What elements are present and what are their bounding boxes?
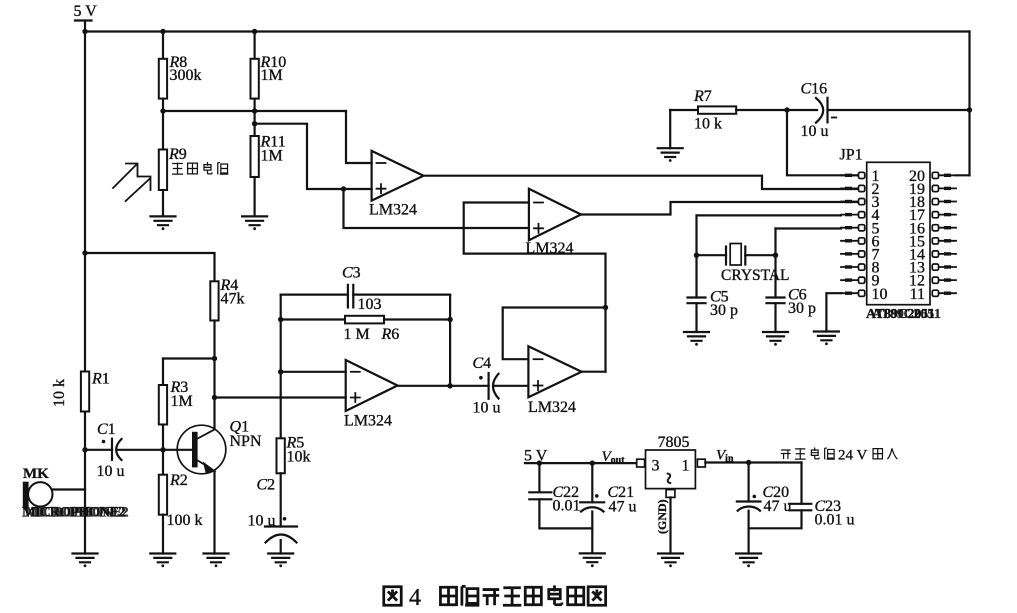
JP1 pin 2	[841, 187, 859, 189]
JP1 pin 19	[939, 187, 957, 189]
wire top power rail	[85, 30, 970, 32]
svg-text:LM324: LM324	[369, 202, 417, 219]
ground C20	[736, 554, 761, 568]
wire Q1 emitter to ground	[213, 472, 215, 554]
capacitor C1	[85, 449, 112, 451]
wire node A horizontal	[163, 110, 346, 112]
power 5V stub	[75, 21, 92, 32]
wire crystal to JP1 pin 5	[776, 227, 842, 229]
ground R7	[658, 148, 683, 162]
node C20 tap	[746, 460, 751, 465]
ground JP1 pin 10	[814, 332, 839, 346]
svg-text:MK: MK	[23, 466, 49, 482]
svg-text:100 k: 100 k	[167, 512, 203, 529]
svg-text:10: 10	[872, 286, 888, 303]
svg-text:C3: C3	[342, 265, 361, 282]
svg-text:1M: 1M	[261, 67, 283, 84]
svg-text:C4: C4	[473, 355, 492, 372]
JP1 pin 10	[841, 292, 859, 294]
wire C16 node to JP1 pin 1	[787, 110, 859, 175]
svg-text:5 V: 5 V	[524, 448, 548, 465]
svg-text:5 V: 5 V	[74, 3, 98, 20]
wire R3 top	[162, 359, 164, 386]
wire U2 output to JP1 pin 3	[581, 202, 859, 215]
wire U1 output to JP1 pin 2	[424, 176, 859, 189]
JP1 pin 9	[841, 279, 859, 281]
node C21 tap	[590, 460, 595, 465]
resistor R7	[670, 109, 698, 111]
capacitor C23	[800, 463, 802, 504]
wire crystal right vertical	[774, 229, 776, 298]
wire U4 feedback to inverting input	[503, 308, 606, 360]
ground left rail	[73, 554, 98, 568]
capacitor C5	[688, 298, 706, 304]
svg-text:3: 3	[652, 458, 660, 475]
wire pin 20 to right rail	[956, 174, 970, 176]
wire 5V to 7805 pin 3	[525, 462, 637, 464]
ground R9	[151, 216, 176, 230]
resistor R6	[281, 318, 345, 320]
node R6 left junction	[278, 317, 283, 322]
node power rail left corner	[82, 29, 87, 34]
svg-text:103: 103	[358, 296, 382, 313]
wire JP1 pin 10 to ground	[826, 293, 841, 331]
wire R3 top to collector node	[163, 357, 215, 359]
svg-text:24 V: 24 V	[838, 448, 867, 464]
JP1 pin 6	[841, 240, 859, 242]
svg-text:R7: R7	[693, 88, 712, 105]
svg-text:4: 4	[409, 585, 421, 611]
ground C21/C22	[580, 553, 605, 567]
wire R7 to C16	[736, 109, 817, 111]
wire R2 to ground	[162, 515, 164, 554]
op-amp U4 LM324	[528, 346, 581, 397]
node crystal left junction	[694, 253, 699, 258]
wire right rail down to pin 20	[968, 32, 970, 176]
JP1 pin 5	[841, 227, 859, 229]
svg-text:1 M: 1 M	[344, 326, 370, 343]
wire microphone to rail	[52, 488, 85, 490]
wire left rail down	[84, 32, 86, 554]
JP1 pin 12	[939, 279, 957, 281]
svg-text:AT89C2051: AT89C2051	[872, 307, 941, 322]
svg-text:C2: C2	[257, 477, 276, 494]
svg-text:C1: C1	[97, 421, 116, 438]
resistor R8	[159, 59, 167, 99]
wire collector to U3 non-inverting input	[215, 396, 346, 398]
svg-text:C16: C16	[801, 81, 828, 98]
svg-text:R6: R6	[381, 326, 400, 343]
JP1 pin 17	[939, 214, 957, 216]
svg-text:10k: 10k	[287, 449, 311, 466]
node C16 wire to right rail	[967, 107, 972, 112]
svg-text:(GND): (GND)	[655, 499, 669, 534]
resistor R3	[159, 385, 167, 425]
svg-text:10 u: 10 u	[248, 513, 276, 530]
op-amp U2 LM324	[529, 189, 581, 240]
wire R9 to ground	[162, 190, 164, 216]
svg-text:R1: R1	[91, 371, 110, 388]
node U1+ branch junction	[341, 186, 346, 191]
svg-text:MICROPHONE2: MICROPHONE2	[25, 505, 128, 521]
resistor R1	[81, 372, 89, 412]
svg-text:10 k: 10 k	[51, 379, 68, 407]
node B junction	[252, 121, 257, 126]
JP1 pin 13	[939, 266, 957, 268]
node A junction at R8/R9	[160, 108, 165, 113]
resistor R10	[251, 59, 259, 99]
wire U1+ to U2+ link	[344, 189, 529, 228]
node rail-R10 junction	[252, 29, 257, 34]
wire 7805 pin 1 to 24V input	[705, 461, 801, 463]
wire 7805 GND pin to ground	[669, 497, 671, 553]
svg-text:1M: 1M	[171, 393, 193, 410]
svg-text:11: 11	[910, 286, 925, 303]
JP1 pin 20	[939, 174, 957, 176]
wire feedback right vertical	[449, 295, 451, 386]
node R6 right junction	[447, 317, 452, 322]
label switch power 24V input	[781, 450, 791, 459]
wire R8 top	[162, 32, 164, 59]
node U3 inverting junction	[278, 369, 283, 374]
resistor R4	[210, 281, 218, 320]
svg-text:30 p: 30 p	[710, 302, 738, 319]
JP1 pin 15	[939, 240, 957, 242]
ground Q1 emitter	[204, 554, 229, 568]
capacitor C16	[816, 98, 823, 123]
node left rail to R4	[82, 250, 87, 255]
JP1 pin 4	[841, 214, 859, 216]
wire U2 inverting input net	[464, 203, 606, 372]
wire U3 inverting net vertical	[280, 295, 282, 439]
svg-text:R9: R9	[168, 146, 187, 163]
ground C2	[268, 554, 293, 568]
svg-text:NPN: NPN	[230, 433, 262, 450]
node R4/R3 junction	[212, 356, 217, 361]
JP1 pin 7	[841, 253, 859, 255]
node U3 output junction	[447, 383, 452, 388]
node R1/C1 junction	[82, 447, 87, 452]
crystal CRYSTAL	[697, 254, 727, 256]
svg-text:47k: 47k	[221, 291, 245, 308]
transistor Q1	[177, 425, 226, 474]
wire crystal left vertical	[695, 215, 697, 297]
wire R10 bottom to R11	[254, 99, 256, 136]
wire to U3 inverting input	[281, 371, 346, 373]
svg-text:LM324: LM324	[344, 413, 392, 430]
capacitor C3	[281, 294, 348, 296]
svg-text:7805: 7805	[658, 434, 690, 451]
svg-text:30 p: 30 p	[788, 300, 816, 317]
label guang-min-dian-zu (photoresistor)	[172, 163, 183, 175]
resistor R5	[277, 438, 285, 473]
wire R8 bottom	[162, 99, 164, 111]
resistor R2	[159, 475, 167, 515]
svg-text:300k: 300k	[170, 67, 202, 84]
JP1 pin 11	[939, 292, 957, 294]
op-amp U1 LM324	[372, 151, 424, 201]
node C16/pin1 junction	[784, 107, 789, 112]
wire node A to U1 inverting input	[346, 111, 372, 163]
svg-text:10 u: 10 u	[97, 463, 125, 480]
wire R11 to ground	[254, 177, 256, 216]
capacitor C6	[767, 298, 785, 304]
svg-text:1M: 1M	[261, 148, 283, 165]
svg-text:47 u: 47 u	[609, 499, 637, 516]
JP1 pin 8	[841, 266, 859, 268]
node rail-R8 junction	[160, 29, 165, 34]
wire R10 top	[254, 32, 256, 59]
JP1 pin 16	[939, 227, 957, 229]
resistor R11	[251, 136, 259, 177]
capacitor C22	[538, 463, 540, 492]
svg-text:0.01 u: 0.01 u	[815, 512, 855, 529]
wire U4 output	[582, 371, 606, 373]
wire R4 to Q1 collector	[213, 321, 215, 429]
wire U3 output to C4	[398, 385, 489, 387]
capacitor C20	[747, 463, 749, 502]
capacitor C21	[591, 463, 593, 502]
svg-text:1: 1	[682, 458, 690, 475]
resistor R9 (photoresistor)	[162, 111, 164, 150]
node A junction at R10	[252, 108, 257, 113]
svg-text:10 u: 10 u	[473, 400, 501, 417]
ground R2	[150, 554, 175, 568]
svg-text:47 u: 47 u	[764, 498, 792, 515]
ground C5	[684, 332, 709, 346]
node collector to U3+ junction	[212, 395, 217, 400]
svg-text:0.01: 0.01	[553, 498, 581, 515]
svg-text:R2: R2	[169, 472, 188, 489]
caption: figure 4 smart controller circuit diagram	[384, 587, 401, 605]
node U4 feedback corner	[603, 305, 608, 310]
ground R11	[242, 216, 267, 230]
JP1 pin 1	[841, 174, 859, 176]
node base divider junction	[160, 447, 165, 452]
JP1 pin 18	[939, 201, 957, 203]
JP1 pin 14	[939, 253, 957, 255]
wire R5 to C2	[280, 473, 282, 526]
photoresistor light arrows	[113, 164, 151, 202]
svg-text:~: ~	[656, 472, 681, 484]
svg-text:CRYSTAL: CRYSTAL	[721, 267, 790, 284]
wire rail to R4	[85, 253, 215, 281]
wire crystal to JP1 pin 4	[698, 214, 841, 216]
JP1 pin 3	[841, 201, 859, 203]
ground C6	[763, 332, 788, 346]
svg-text:LM324: LM324	[528, 399, 576, 416]
wire R3 to R2	[162, 425, 164, 475]
svg-text:JP1: JP1	[840, 147, 863, 164]
wire node B to U1 non-inverting input	[255, 124, 372, 189]
svg-text:10 u: 10 u	[801, 123, 829, 140]
node crystal right junction	[773, 253, 778, 258]
capacitor C4	[488, 373, 490, 399]
svg-text:10 k: 10 k	[694, 116, 722, 133]
node C22 tap	[537, 460, 542, 465]
ground 7805	[658, 554, 683, 568]
